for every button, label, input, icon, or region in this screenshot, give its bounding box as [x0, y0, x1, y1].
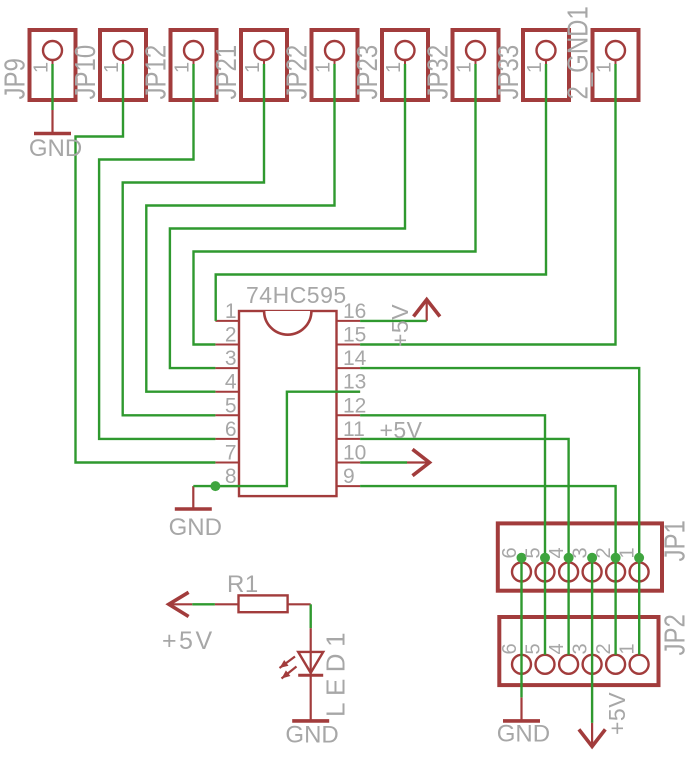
svg-text:1: 1 — [617, 643, 639, 654]
svg-text:4: 4 — [546, 547, 568, 558]
svg-text:11: 11 — [343, 418, 365, 441]
svg-text:5: 5 — [225, 394, 237, 417]
svg-text:14: 14 — [343, 347, 367, 370]
svg-text:LED1: LED1 — [321, 626, 351, 717]
svg-text:1: 1 — [617, 547, 639, 558]
svg-text:+5V: +5V — [379, 417, 422, 443]
svg-text:1: 1 — [31, 62, 53, 73]
svg-text:16: 16 — [343, 300, 366, 323]
svg-text:1: 1 — [242, 62, 264, 73]
svg-text:JP21: JP21 — [210, 45, 243, 100]
svg-text:+5V: +5V — [387, 304, 413, 347]
svg-text:5: 5 — [523, 643, 545, 654]
svg-text:5: 5 — [523, 547, 545, 558]
svg-text:1: 1 — [172, 62, 194, 73]
svg-text:JP23: JP23 — [351, 45, 384, 100]
svg-text:10: 10 — [343, 442, 366, 465]
svg-text:1: 1 — [225, 300, 237, 323]
svg-text:JP9: JP9 — [0, 58, 31, 99]
svg-text:JP10: JP10 — [69, 45, 102, 100]
svg-text:JP1: JP1 — [658, 520, 690, 561]
svg-text:74HC595: 74HC595 — [246, 282, 347, 308]
svg-text:2: 2 — [593, 643, 615, 654]
svg-text:GND: GND — [29, 135, 82, 162]
svg-text:JP32: JP32 — [421, 45, 454, 100]
svg-text:12: 12 — [343, 394, 366, 417]
svg-text:9: 9 — [343, 465, 355, 488]
svg-text:GND: GND — [497, 721, 550, 748]
svg-text:+5V: +5V — [162, 627, 215, 655]
svg-text:7: 7 — [225, 442, 237, 465]
svg-text:2_GND1: 2_GND1 — [561, 6, 594, 99]
svg-text:1: 1 — [313, 62, 335, 73]
svg-text:GND: GND — [169, 514, 222, 541]
svg-text:2: 2 — [225, 324, 237, 347]
svg-text:R1: R1 — [227, 571, 259, 598]
svg-text:6: 6 — [225, 418, 237, 441]
svg-text:1: 1 — [594, 62, 616, 73]
svg-text:4: 4 — [546, 643, 568, 654]
svg-text:JP22: JP22 — [280, 45, 313, 100]
svg-text:15: 15 — [343, 324, 366, 347]
svg-text:JP12: JP12 — [139, 45, 172, 100]
svg-text:1: 1 — [101, 62, 123, 73]
svg-text:1: 1 — [524, 62, 546, 73]
svg-text:8: 8 — [225, 465, 237, 488]
svg-text:JP2: JP2 — [658, 614, 690, 655]
svg-text:4: 4 — [225, 371, 237, 394]
svg-text:3: 3 — [570, 547, 592, 558]
svg-text:6: 6 — [499, 643, 521, 654]
svg-text:1: 1 — [383, 62, 405, 73]
svg-text:13: 13 — [343, 371, 366, 394]
svg-text:JP33: JP33 — [492, 45, 525, 100]
svg-text:3: 3 — [570, 643, 592, 654]
svg-text:1: 1 — [454, 62, 476, 73]
svg-text:2: 2 — [593, 547, 615, 558]
svg-text:6: 6 — [499, 547, 521, 558]
svg-text:+5V: +5V — [604, 692, 630, 735]
svg-text:3: 3 — [225, 347, 237, 370]
svg-text:GND: GND — [285, 721, 338, 748]
